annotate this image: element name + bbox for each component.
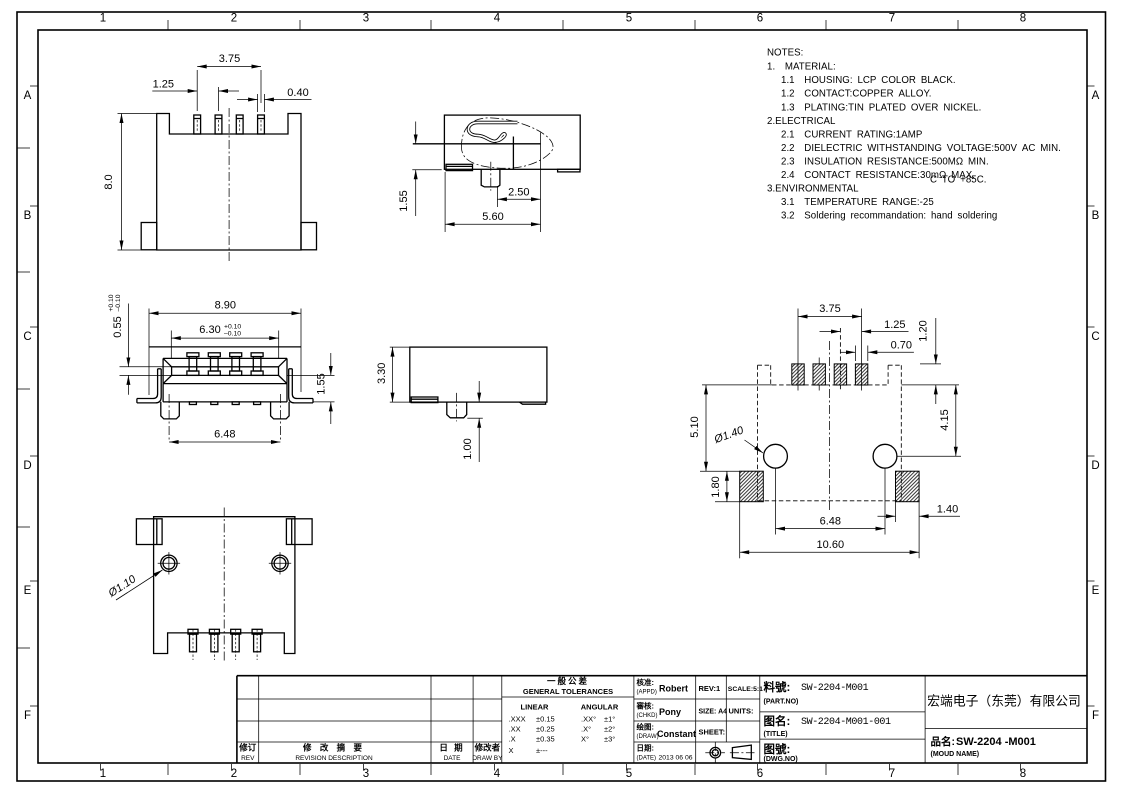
view3 right bottom boss: [271, 402, 290, 419]
svg-text:修 改 摘 要: 修 改 摘 要: [302, 743, 365, 753]
svg-text:8.90: 8.90: [215, 300, 236, 312]
svg-text:SHEET:: SHEET:: [699, 728, 726, 737]
svg-text:F: F: [24, 710, 31, 722]
svg-text:0.55: 0.55: [112, 316, 124, 337]
view3 contact 4: [251, 353, 263, 376]
svg-text:3.75: 3.75: [819, 303, 840, 315]
view5 vertical centerline: [223, 508, 225, 661]
svg-text:X°: X°: [581, 735, 589, 744]
dimension 5.10 (pcb): [689, 385, 740, 471]
svg-text:(DRAW): (DRAW): [637, 734, 659, 740]
bottom grid zone numbers: [100, 768, 1026, 780]
svg-text:1.1 HOUSING: LCP COLOR BLACK.: 1.1 HOUSING: LCP COLOR BLACK.: [781, 75, 956, 86]
view3 contact 2: [208, 353, 220, 376]
svg-text:3.2 Soldering recommandation:: 3.2 Soldering recommandation: hand solde…: [781, 210, 997, 221]
svg-text:+0.10: +0.10: [224, 324, 241, 331]
approval texts: [636, 677, 697, 762]
dimension 3.75 (pcb): [798, 303, 862, 364]
svg-text:UNITS:: UNITS:: [729, 707, 754, 716]
pcb reference line: [702, 384, 772, 386]
svg-text:±3°: ±3°: [604, 735, 615, 744]
svg-text:F: F: [1092, 710, 1099, 722]
view3 left gull-wing lead: [137, 369, 161, 403]
svg-text:–0.10: –0.10: [115, 294, 122, 311]
view3 contact 3: [230, 353, 242, 376]
dimension 1.25 (view1): [152, 79, 239, 112]
svg-text:1.25: 1.25: [153, 79, 174, 91]
svg-text:1.3 PLATING:TIN PLATED OVER N: 1.3 PLATING:TIN PLATED OVER NICKEL.: [781, 102, 981, 113]
svg-text:Constant: Constant: [657, 729, 696, 739]
svg-text:REVISION DESCRIPTION: REVISION DESCRIPTION: [295, 755, 373, 762]
third angle projection symbol: [705, 742, 754, 763]
view3 contact 1: [187, 353, 199, 376]
left grid ticks: [17, 86, 38, 706]
view5 body outline: [154, 517, 295, 654]
view1 right mounting foot: [301, 223, 317, 250]
view5 pin 4: [252, 629, 262, 660]
view1 pin 1: [194, 115, 201, 134]
svg-text:ANGULAR: ANGULAR: [581, 703, 619, 712]
dimension 1.25 (pcb): [820, 319, 909, 332]
svg-text:+0.10: +0.10: [108, 294, 115, 311]
view5 right wing lead: [286, 519, 312, 545]
pcb pad 1 (hatched): [792, 364, 804, 391]
svg-text:图名:: 图名:: [764, 714, 791, 728]
view5 pin 3: [231, 629, 241, 660]
view3 pin tip stubs: [189, 402, 260, 405]
svg-text:一般公差: 一般公差: [547, 676, 589, 686]
pcb right corner pad (hatched): [896, 471, 920, 502]
svg-text:(PART.NO): (PART.NO): [764, 699, 799, 706]
view4 center solder pin: [447, 402, 467, 418]
svg-text:5.60: 5.60: [482, 211, 503, 223]
pcb pad 3 (hatched): [834, 328, 846, 391]
svg-text:DATE: DATE: [444, 755, 462, 762]
svg-text:SW-2204-M001-001: SW-2204-M001-001: [801, 717, 891, 728]
svg-text:±0.25: ±0.25: [536, 725, 555, 734]
view3 body lower part: [163, 384, 287, 402]
svg-text:1.00: 1.00: [462, 438, 474, 459]
dimension 1.00 (view4): [462, 381, 483, 462]
svg-text:±0.15: ±0.15: [536, 715, 555, 724]
dimension 4.15 (pcb): [897, 385, 961, 456]
view1 vertical centerline: [228, 108, 230, 263]
svg-text:5.10: 5.10: [689, 416, 701, 437]
bottom grid ticks: [101, 764, 1021, 775]
svg-text:.X°: .X°: [581, 725, 591, 734]
view3 right gull-wing lead: [289, 369, 313, 403]
view5 pin 1: [188, 629, 198, 660]
svg-text:2.3 INSULATION RESISTANCE:500: 2.3 INSULATION RESISTANCE:500MΩ MIN.: [781, 156, 989, 167]
svg-text:D: D: [23, 460, 31, 472]
svg-text:6: 6: [757, 13, 763, 25]
svg-text:2.ELECTRICAL: 2.ELECTRICAL: [767, 116, 836, 127]
view1 pin 4: [258, 115, 265, 134]
svg-text:1. MATERIAL:: 1. MATERIAL:: [767, 62, 836, 73]
svg-text:NOTES:: NOTES:: [767, 48, 803, 59]
svg-text:±0.35: ±0.35: [536, 735, 555, 744]
approval columns grid: [634, 676, 760, 763]
svg-text:.X: .X: [509, 735, 516, 744]
svg-text:±---: ±---: [536, 746, 548, 755]
svg-text:E: E: [1092, 585, 1100, 597]
dimension 1.80 (pcb): [710, 471, 740, 502]
dimension 0.55 with tolerance (view3): [108, 294, 172, 395]
view3 boss centerlines: [168, 394, 170, 440]
rev/scale/size/units/sheet texts: [699, 684, 764, 737]
dimension 2.50 (view2): [497, 133, 540, 233]
svg-text:SW-2204-M001: SW-2204-M001: [801, 683, 869, 694]
view5 pin 2: [209, 629, 219, 660]
view2 left solder tab: [446, 164, 473, 170]
view4 bottom right pad: [519, 402, 545, 404]
svg-text:2.1 CURRENT RATING:1AMP: 2.1 CURRENT RATING:1AMP: [781, 129, 922, 140]
view2 body outline: [444, 115, 580, 169]
product name: [931, 735, 1036, 758]
svg-text:7: 7: [889, 13, 895, 25]
svg-text:6.30: 6.30: [199, 324, 220, 336]
svg-text:A: A: [1092, 90, 1100, 102]
part number section grid: [760, 676, 925, 763]
dimension 1.55 (view2): [398, 122, 442, 217]
svg-text:核准:: 核准:: [637, 677, 655, 687]
svg-text:日 期: 日 期: [439, 743, 464, 753]
svg-text:1.55: 1.55: [398, 190, 410, 211]
svg-text:宏端电子（东莞）有限公司: 宏端电子（东莞）有限公司: [927, 694, 1081, 709]
svg-text:±2°: ±2°: [604, 725, 615, 734]
svg-text:3: 3: [363, 13, 369, 25]
svg-text:GENERAL TOLERANCES: GENERAL TOLERANCES: [523, 687, 613, 696]
dimension 6.30 with tolerance (view3): [171, 324, 278, 359]
svg-text:3.ENVIRONMENTAL: 3.ENVIRONMENTAL: [767, 183, 859, 194]
leader and label dia 1.40 (pcb): [712, 424, 763, 453]
view5 right hole: [269, 552, 291, 574]
dimension 0.70 (pcb): [841, 339, 914, 361]
top grid ticks: [168, 20, 958, 30]
view4 pin centerline: [456, 393, 458, 422]
svg-text:10.60: 10.60: [817, 539, 845, 551]
svg-text:SCALE:5:1: SCALE:5:1: [728, 686, 763, 693]
view2 spring contact hook: [468, 123, 517, 142]
svg-text:绘图:: 绘图:: [637, 722, 655, 732]
view1 body outline: [157, 114, 301, 251]
svg-text:3.30: 3.30: [376, 363, 388, 384]
pcb pad 2 (hatched): [813, 358, 825, 391]
svg-text:.XX°: .XX°: [581, 715, 596, 724]
view3 left bottom boss: [161, 402, 180, 419]
svg-text:1.55: 1.55: [316, 373, 328, 394]
dimension 3.30 (view4): [376, 347, 411, 402]
svg-text:D: D: [1091, 460, 1099, 472]
company section: [925, 728, 1087, 730]
dimension 1.40 (pcb): [878, 502, 961, 522]
general tolerances texts: [509, 676, 619, 755]
svg-text:8: 8: [1020, 13, 1026, 25]
view2 seam line: [413, 143, 541, 145]
svg-text:X: X: [509, 746, 514, 755]
svg-text:2.2 DIELECTRIC WITHSTANDING V: 2.2 DIELECTRIC WITHSTANDING VOLTAGE:500V…: [781, 143, 1061, 154]
dimension 8.90 (view3): [149, 300, 301, 396]
right grid ticks: [1087, 86, 1095, 706]
svg-text:LINEAR: LINEAR: [521, 703, 550, 712]
svg-text:6.48: 6.48: [820, 516, 841, 528]
svg-text:日期:: 日期:: [637, 743, 655, 753]
svg-text:(TITLE): (TITLE): [764, 731, 788, 738]
view1 pin 3: [236, 115, 243, 134]
svg-text:Pony: Pony: [659, 707, 681, 717]
svg-text:品名:: 品名:: [931, 735, 956, 748]
view3 top edge: [149, 346, 301, 348]
pcb dashed body outline: [758, 365, 902, 501]
view4 body outline: [410, 347, 547, 402]
view2 bottom right pad: [558, 169, 580, 172]
svg-text:1.80: 1.80: [710, 476, 722, 497]
view4 left solder tab: [411, 397, 438, 403]
svg-text:DRAW BY: DRAW BY: [472, 755, 503, 762]
view2 pin centerline: [490, 162, 492, 191]
view1 pin 2: [215, 115, 222, 134]
svg-text:修改者: 修改者: [474, 743, 501, 753]
pcb left hole: [764, 444, 788, 468]
svg-text:4.15: 4.15: [939, 409, 951, 430]
notes text block: [767, 48, 1061, 222]
svg-text:2: 2: [231, 13, 237, 25]
dimension 1.20 (pcb): [918, 318, 942, 404]
part number texts: [764, 680, 892, 763]
svg-text:3.75: 3.75: [219, 53, 240, 65]
top grid zone numbers: [100, 13, 1026, 25]
svg-text:5: 5: [626, 13, 632, 25]
svg-text:.XXX: .XXX: [509, 715, 526, 724]
svg-text:料號:: 料號:: [764, 680, 791, 694]
view2 inner contact edge: [512, 137, 514, 170]
svg-text:C: C: [1091, 331, 1099, 343]
svg-text:1: 1: [100, 13, 106, 25]
svg-text:–0.10: –0.10: [224, 331, 241, 338]
pcb pad 4 (hatched): [855, 364, 867, 391]
svg-text:SW-2204 -M001: SW-2204 -M001: [956, 736, 1036, 748]
dimension 6.48 (view3): [169, 429, 280, 443]
left grid zone letters: [23, 90, 31, 722]
dimension 10.60 (pcb): [740, 502, 919, 559]
leader and label dia 1.10 (view5): [106, 570, 163, 600]
title block revision section grid: [237, 676, 502, 763]
svg-text:Robert: Robert: [659, 684, 688, 694]
pcb right hole: [873, 444, 897, 468]
svg-text:(CHKD): (CHKD): [637, 713, 658, 719]
svg-text:(APPD): (APPD): [637, 690, 657, 696]
svg-text:0.70: 0.70: [891, 339, 912, 351]
svg-text:修订: 修订: [238, 743, 257, 753]
svg-text:6.48: 6.48: [214, 429, 235, 441]
svg-text:2013 06 06: 2013 06 06: [659, 755, 693, 762]
svg-text:1.40: 1.40: [937, 504, 958, 516]
svg-text:B: B: [1092, 210, 1100, 222]
view5 left hole: [158, 552, 180, 574]
svg-text:1.25: 1.25: [884, 319, 905, 331]
svg-text:SIZE: A4: SIZE: A4: [699, 709, 728, 716]
view3 chamfered face frame: [163, 358, 287, 383]
dimension 0.40 (view1): [237, 87, 312, 112]
dimension 3.75 (view1): [197, 53, 261, 111]
general tolerances box: [502, 676, 634, 763]
svg-text:1.20: 1.20: [918, 320, 930, 341]
svg-text:A: A: [24, 90, 32, 102]
svg-text:REV: REV: [241, 755, 255, 762]
svg-text:(DATE): (DATE): [637, 756, 657, 762]
view5 left wing lead: [136, 519, 162, 545]
view2 egg-shaped section curve: [461, 118, 553, 168]
svg-text:4: 4: [494, 13, 501, 25]
svg-text:8.0: 8.0: [103, 174, 115, 189]
svg-text:±1°: ±1°: [604, 715, 615, 724]
svg-text:E: E: [24, 585, 32, 597]
svg-text:(MOUD NAME): (MOUD NAME): [931, 751, 980, 758]
svg-text:图號:: 图號:: [764, 742, 791, 756]
svg-text:C: C: [23, 331, 31, 343]
title block outer lines: [237, 676, 1087, 763]
svg-text:REV:1: REV:1: [699, 684, 721, 693]
svg-text:2.50: 2.50: [508, 187, 529, 199]
svg-text:0.40: 0.40: [287, 87, 308, 99]
view1 left mounting foot: [141, 223, 157, 250]
svg-text:(DWG.NO): (DWG.NO): [764, 756, 798, 763]
dimension 6.48 (pcb): [776, 469, 886, 535]
svg-text:C TO +85C.: C TO +85C.: [930, 175, 986, 186]
svg-text:3.1 TEMPERATURE RANGE:-25: 3.1 TEMPERATURE RANGE:-25: [781, 197, 934, 208]
dimension 5.60 (view2): [445, 172, 540, 232]
svg-text:1.2 CONTACT:COPPER ALLOY.: 1.2 CONTACT:COPPER ALLOY.: [781, 89, 931, 100]
view2 center solder pin: [481, 169, 500, 187]
svg-text:.XX: .XX: [509, 725, 521, 734]
dimension 8.0 (view1): [103, 114, 156, 251]
svg-text:審核:: 審核:: [636, 701, 655, 711]
svg-text:B: B: [24, 210, 32, 222]
pcb left corner pad (hatched): [740, 471, 764, 502]
right grid zone letters: [1091, 90, 1099, 722]
revision header texts: [238, 743, 503, 763]
dimension 1.55 (view3): [287, 353, 335, 424]
pcb centerline: [828, 341, 830, 512]
